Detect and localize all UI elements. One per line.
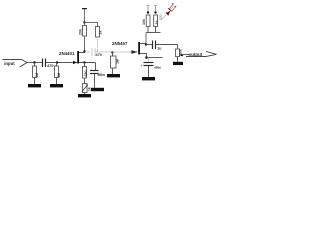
wire trimmer to ground xyxy=(84,93,86,95)
wire output xyxy=(180,54,190,56)
svg-text:470: 470 xyxy=(96,53,102,57)
node dot B (R2 tap) xyxy=(56,61,58,63)
LED D1 cathode bar xyxy=(168,8,171,11)
transistor Q2 gate arrowhead xyxy=(132,50,138,53)
svg-text:1M: 1M xyxy=(35,73,39,78)
wire bypass branch down xyxy=(95,63,97,71)
wire C5 top stem (faint) xyxy=(148,58,150,63)
wire V1 to R3 xyxy=(84,23,86,26)
trimmer R9 xyxy=(83,84,88,93)
wire C2 to R6 node (faint) xyxy=(96,51,113,53)
svg-text:1M: 1M xyxy=(57,73,61,78)
svg-text:10k: 10k xyxy=(142,19,146,25)
LED D1 cathode lead (faint) xyxy=(171,6,175,10)
transistor Q2 drain lead xyxy=(140,43,146,45)
resistor R3 xyxy=(83,26,87,37)
wire C1 to Q1 gate xyxy=(46,62,77,64)
node dot I (Q2 source) xyxy=(145,56,148,59)
capacitor C5 plates xyxy=(144,63,154,66)
svg-text:input: input xyxy=(4,61,15,66)
svg-text:1u: 1u xyxy=(157,47,161,51)
ground G1 xyxy=(28,84,41,87)
wire R4 to rail xyxy=(147,27,149,33)
resistor R4 xyxy=(146,15,150,27)
wire R6 to ground xyxy=(112,68,114,74)
transistor Q1 channel bar xyxy=(77,51,79,64)
wire C5 to ground xyxy=(148,66,150,77)
wire R5 stem xyxy=(84,63,86,67)
wire input to C1 xyxy=(27,62,42,64)
wire V1 down xyxy=(84,9,86,22)
resistor R2 xyxy=(55,66,59,78)
svg-text:1k: 1k xyxy=(99,31,103,35)
svg-text:output: output xyxy=(189,52,203,57)
svg-text:470: 470 xyxy=(47,63,54,68)
pin dot V3 xyxy=(154,11,156,13)
svg-text:2N5457: 2N5457 xyxy=(112,41,128,46)
ground G3 xyxy=(78,94,91,97)
wire R10 to rail xyxy=(155,27,157,33)
pin dot V2 xyxy=(147,11,149,13)
ground G6 xyxy=(142,77,155,80)
wire R2 stem xyxy=(56,63,58,67)
wire R3 to Q1 drain xyxy=(84,36,86,53)
resistor R5 xyxy=(83,67,87,79)
wire coupling stage1 to stage2 (faint) xyxy=(85,51,91,53)
wire R8 to bias node (faint) xyxy=(97,37,99,52)
port P1 input symbol xyxy=(3,60,28,67)
ground G7 xyxy=(173,62,183,65)
node dot E (Q1 source/R5) xyxy=(83,61,85,63)
svg-text:1k: 1k xyxy=(87,87,91,91)
transistor Q1 source lead xyxy=(79,62,96,64)
svg-text:20k: 20k xyxy=(78,29,82,35)
transistor Q2 source lead xyxy=(140,54,147,58)
svg-text:2N4401: 2N4401 xyxy=(59,51,75,56)
wire C3 to R7 xyxy=(156,45,178,49)
wire R2 to ground xyxy=(56,78,58,85)
wire R1 to ground xyxy=(34,78,36,85)
node dot F (Q2 gate/R6) xyxy=(111,51,113,53)
capacitor C4 plates xyxy=(90,71,99,74)
resistor R10 xyxy=(154,15,158,27)
wire R1 stem xyxy=(34,63,36,67)
node dot H (Q2 drain/C3) xyxy=(145,43,147,45)
wire C4 to ground xyxy=(94,74,96,88)
wire R6 stem xyxy=(112,53,114,57)
node dot D (Q1 drain) xyxy=(83,50,85,52)
ground G4 xyxy=(91,88,104,91)
resistor R6 xyxy=(111,56,117,68)
resistor R7 xyxy=(176,49,180,57)
wire drain rail xyxy=(146,32,161,34)
transistor Q1 gate arrowhead xyxy=(73,61,77,64)
LED D1 anode lead (faint) xyxy=(162,15,166,19)
LED D1 emission arrows xyxy=(170,4,176,11)
node dot C (top rail) xyxy=(83,21,85,23)
svg-text:680n: 680n xyxy=(154,65,161,69)
transistor Q1 drain lead xyxy=(79,44,85,53)
wire R6 node to Q2 gate (faint) xyxy=(113,51,131,53)
wire R7 to ground xyxy=(177,57,179,62)
ground G5 xyxy=(107,74,120,77)
LED D1 triangle xyxy=(166,11,171,16)
wire R5 to trimmer xyxy=(84,78,86,84)
resistor R8 xyxy=(96,27,100,38)
capacitor C3 plates xyxy=(153,41,156,50)
capacitor C1 plates xyxy=(43,59,46,68)
wire top rail to R8 xyxy=(85,23,98,27)
resistor R1 xyxy=(33,66,37,78)
supply pin stub V3 xyxy=(155,6,157,11)
supply pin stub V2 xyxy=(147,6,149,11)
node dot J (output tap) xyxy=(181,54,183,56)
port P2 output symbol xyxy=(186,51,217,56)
svg-text:1M: 1M xyxy=(116,59,120,64)
wire source node right xyxy=(147,57,163,59)
wire drain to C3 xyxy=(146,44,152,46)
transistor Q2 channel bar xyxy=(138,42,140,55)
ground G2 xyxy=(50,84,63,87)
svg-text:560n: 560n xyxy=(98,73,105,77)
svg-text:680: 680 xyxy=(84,71,88,77)
wire drain riser xyxy=(145,33,147,45)
node dot A (input/R1) xyxy=(33,61,35,63)
capacitor C2 plates (faint) xyxy=(92,48,95,56)
supply V1 tick xyxy=(82,8,87,9)
trimmer R9 arrow xyxy=(82,85,88,92)
